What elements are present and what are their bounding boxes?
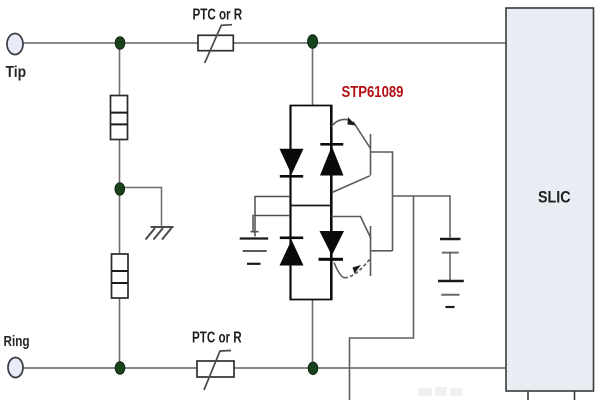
node D (ring / left rail junction) xyxy=(115,362,125,374)
ground earth (left of bridge) xyxy=(240,239,269,264)
bridge mid bar xyxy=(292,205,331,207)
diode D1 (left-top, pointing down) xyxy=(280,149,304,178)
wire bridge ground link lower xyxy=(251,216,291,233)
ground earth (below capacitor) xyxy=(438,281,464,307)
transistor Q2 arrow xyxy=(353,265,362,274)
wire bridge feed bottom (bridge to ring line) xyxy=(312,299,314,368)
wire bridge feed top (from node C down to bridge) xyxy=(312,43,314,106)
svg-text:Ring: Ring xyxy=(4,333,30,350)
resistor R2 (lower left rail) xyxy=(112,254,129,298)
PTC fuse bottom xyxy=(197,351,234,391)
diode D3 (right-top, pointing up) xyxy=(320,143,344,176)
transistor Q2 (bottom SCR half) xyxy=(332,217,393,278)
terminal Ring xyxy=(8,358,23,378)
PTC fuse top xyxy=(198,25,233,63)
diode D4 (right-bottom, pointing down) xyxy=(319,231,345,261)
capacitor C1 xyxy=(440,239,461,280)
node C (tip / bridge feed junction) xyxy=(308,35,318,49)
diode D2 (left-bottom, pointing up) xyxy=(280,237,304,266)
wire tip line (Tip to SLIC) xyxy=(23,42,506,44)
bridge frame (top edge, rails, bottom edge) xyxy=(290,106,333,300)
wire gate return (down and around to bottom edge) xyxy=(350,196,414,400)
terminal Tip xyxy=(7,34,23,55)
transistor Q1 (top SCR half) xyxy=(332,119,393,251)
svg-text:PTC or R: PTC or R xyxy=(192,329,242,346)
resistor R1 (upper left rail) xyxy=(111,96,128,140)
node E (ring / bridge feed junction) xyxy=(308,362,318,374)
svg-text:SLIC: SLIC xyxy=(538,188,571,206)
transistor Q1 arrow xyxy=(348,117,357,126)
node B (left rail / ground branch junction) xyxy=(115,183,125,195)
ground chassis (hatched) xyxy=(146,227,174,240)
wire collector to capacitor xyxy=(393,196,451,238)
wire bridge ground link upper xyxy=(255,197,290,237)
watermark xyxy=(418,387,463,396)
wire ring line (Ring to SLIC) xyxy=(23,367,506,369)
wire SLIC bottom stub 1 xyxy=(527,391,529,400)
node A (tip / left rail junction) xyxy=(115,37,125,49)
SLIC block xyxy=(506,8,594,391)
svg-text:PTC or R: PTC or R xyxy=(193,6,243,23)
svg-text:STP61089: STP61089 xyxy=(342,84,404,101)
wire SLIC bottom stub 2 xyxy=(574,391,576,400)
wire ground branch from node B xyxy=(122,188,162,227)
svg-text:Tip: Tip xyxy=(6,64,27,81)
wire left rail (vertical x=120) xyxy=(119,43,121,368)
